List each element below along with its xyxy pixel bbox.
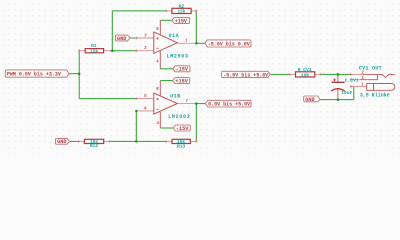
svg-text:GND: GND bbox=[57, 139, 66, 145]
wire U1B pin 6 down bbox=[135, 111, 137, 141]
svg-text:15k: 15k bbox=[177, 140, 185, 145]
junction U1A output bbox=[195, 42, 198, 45]
svg-text:3,5 Klinke: 3,5 Klinke bbox=[360, 92, 390, 98]
op-amp U1A pins bbox=[136, 37, 154, 39]
resistor stubs bbox=[79, 50, 85, 52]
connector X1 jack ring contact bbox=[360, 75, 377, 80]
svg-text:15k: 15k bbox=[90, 140, 98, 145]
wire R2 right to output node bbox=[195, 11, 197, 43]
svg-text:U1B: U1B bbox=[170, 94, 181, 100]
svg-text:R1: R1 bbox=[91, 43, 97, 49]
connector X1 pins bbox=[351, 73, 363, 75]
svg-text:+15V: +15V bbox=[175, 78, 188, 84]
wire +15V U1B bbox=[160, 80, 172, 82]
svg-text:GND: GND bbox=[117, 36, 126, 42]
svg-text:+15V: +15V bbox=[175, 18, 188, 24]
supply +15V (U1B) bbox=[173, 78, 190, 84]
resistor R13 bbox=[172, 139, 190, 143]
wire -15V U1A bbox=[160, 68, 172, 70]
wire up to sleeve pin bbox=[353, 86, 355, 99]
wire +15V U1A bbox=[160, 19, 172, 21]
svg-text:15k: 15k bbox=[177, 10, 185, 15]
resistor R_CV1 bbox=[296, 72, 315, 77]
net label GND (U1A +in) bbox=[115, 35, 130, 41]
wire -15V U1B bbox=[160, 127, 173, 129]
resistor R1 bbox=[85, 49, 103, 53]
junction bottom wire bbox=[135, 140, 138, 143]
wire feedback vertical bbox=[111, 11, 113, 51]
wire GND to jack sleeve bbox=[320, 99, 354, 101]
junction R1/feedback/U1A- bbox=[111, 49, 114, 52]
op-amp U1A bbox=[154, 32, 178, 53]
wire R13 right to U1B output node bbox=[195, 104, 197, 142]
svg-text:PWM 0.0V bis +3.3V: PWM 0.0V bis +3.3V bbox=[7, 71, 61, 77]
junction U1B pin6 bbox=[135, 110, 137, 112]
supply +15V (U1A) bbox=[172, 17, 190, 23]
wire bottom R12 to R13 bbox=[109, 140, 166, 142]
wire U1A output to label bbox=[196, 42, 205, 44]
resistor R12 bbox=[84, 139, 103, 143]
wire feedback top R2 left bbox=[112, 10, 166, 12]
svg-text:LM2903: LM2903 bbox=[168, 114, 190, 120]
wire label to R_CV1 bbox=[270, 73, 289, 75]
svg-text:15k: 15k bbox=[90, 49, 98, 54]
wire GND to R12 bbox=[70, 140, 79, 142]
svg-text:-15V: -15V bbox=[176, 126, 189, 132]
op-amp U1B bbox=[154, 93, 178, 114]
supply -15V (U1A) bbox=[173, 66, 190, 72]
wire to U1B pin 5 bbox=[79, 98, 136, 100]
connector X1 jack sleeve bbox=[367, 84, 374, 91]
wire U1B output to label bbox=[196, 103, 205, 105]
svg-text:-5.0V bis +5.0V: -5.0V bis +5.0V bbox=[223, 72, 268, 78]
svg-text:10k: 10k bbox=[301, 73, 309, 78]
svg-text:CV1 OUT: CV1 OUT bbox=[359, 66, 382, 72]
svg-text:GND: GND bbox=[305, 97, 314, 103]
connector X1 jack tip contact bbox=[363, 74, 395, 77]
svg-text:-5.0V bis 0.0V: -5.0V bis 0.0V bbox=[208, 41, 250, 47]
net label -5.0V bis +5.0V bbox=[222, 71, 271, 77]
wire R1 to U1A inverting input bbox=[110, 50, 137, 52]
junction PWM node bbox=[78, 72, 81, 75]
junction cap top bbox=[337, 73, 340, 76]
svg-text:0.0V bis +5.0V: 0.0V bis +5.0V bbox=[208, 102, 250, 108]
svg-text:C_CV1: C_CV1 bbox=[345, 77, 359, 83]
terminal crosses bbox=[165, 10, 167, 12]
net label -5.0V bis 0.0V bbox=[205, 40, 251, 47]
svg-text:-15V: -15V bbox=[176, 67, 189, 73]
svg-text:10uF: 10uF bbox=[341, 90, 352, 96]
wire R_CV1 to jack tip bbox=[321, 73, 351, 75]
wire PWM label to node bbox=[69, 73, 79, 75]
resistor R2 bbox=[172, 8, 191, 13]
net label GND (jack) bbox=[304, 96, 320, 102]
net label 0.0V bis +5.0V bbox=[205, 100, 251, 107]
capacitor C_CV1 bbox=[332, 82, 345, 83]
svg-text:U1A: U1A bbox=[169, 33, 180, 39]
net label PWM input bbox=[5, 70, 69, 77]
capacitor stubs bbox=[337, 74, 339, 81]
svg-text:LM2903: LM2903 bbox=[167, 54, 189, 60]
wire GND to U1A pin 3 bbox=[130, 37, 136, 39]
net label GND (R12) bbox=[56, 138, 70, 144]
svg-text:R_CV1: R_CV1 bbox=[298, 67, 312, 73]
svg-text:R2: R2 bbox=[179, 3, 185, 9]
junction U1B output bbox=[195, 102, 198, 105]
op-amp U1B pins bbox=[136, 98, 154, 100]
supply -15V (U1B) bbox=[173, 125, 190, 131]
junction cap bottom bbox=[337, 98, 340, 101]
wire PWM vertical bbox=[78, 51, 80, 99]
